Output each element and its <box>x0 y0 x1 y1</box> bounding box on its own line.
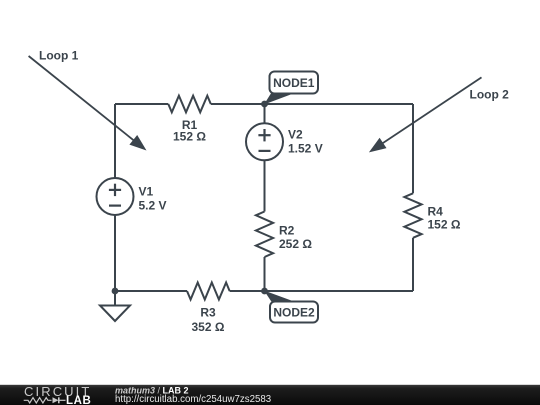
voltage source V2 <box>246 123 283 160</box>
wire middle mid segment <box>264 160 266 211</box>
node junction dot NODE2 <box>261 288 268 295</box>
svg-text:R2: R2 <box>279 224 295 238</box>
svg-text:152 Ω: 152 Ω <box>173 130 206 144</box>
loop 1 arrow <box>29 56 147 151</box>
wire middle lower segment <box>264 257 266 291</box>
svg-text:LAB: LAB <box>66 395 91 405</box>
svg-text:152 Ω: 152 Ω <box>428 218 461 232</box>
wire middle upper segment <box>264 104 266 124</box>
svg-text:NODE2: NODE2 <box>273 306 315 320</box>
wire bottom-left segment <box>115 290 187 292</box>
wire right upper segment <box>412 104 414 193</box>
ground <box>100 291 130 321</box>
NODE2 callout <box>264 291 318 323</box>
svg-text:Loop 1: Loop 1 <box>39 49 79 63</box>
svg-text:5.2 V: 5.2 V <box>139 199 167 213</box>
svg-text:252 Ω: 252 Ω <box>279 237 312 251</box>
resistor R4 <box>404 193 421 238</box>
loop 2 arrow <box>369 77 482 152</box>
svg-text:NODE1: NODE1 <box>273 76 315 90</box>
svg-text:R4: R4 <box>428 205 444 219</box>
wire top-right segment <box>211 103 413 105</box>
resistor R1 <box>168 96 211 113</box>
svg-text:V1: V1 <box>139 185 154 199</box>
svg-text:Loop 2: Loop 2 <box>470 88 510 102</box>
logo diode glyph <box>53 397 66 403</box>
svg-text:R3: R3 <box>200 306 216 320</box>
wire left upper segment <box>114 104 116 178</box>
resistor R2 <box>256 212 273 258</box>
wire left lower segment <box>114 215 116 291</box>
wire top-left segment <box>115 103 168 105</box>
svg-text:1.52 V: 1.52 V <box>288 142 323 156</box>
logo resistor glyph <box>24 398 52 403</box>
resistor R3 <box>187 283 230 300</box>
wire bottom-right segment <box>230 290 413 292</box>
node junction dot ground <box>112 288 119 295</box>
svg-text:V2: V2 <box>288 128 303 142</box>
NODE1 callout <box>264 72 318 105</box>
svg-text:352 Ω: 352 Ω <box>192 320 225 334</box>
node junction dot NODE1 <box>261 101 268 108</box>
voltage source V1 <box>97 178 134 215</box>
svg-text:http://circuitlab.com/c254uw7z: http://circuitlab.com/c254uw7zs2583 <box>115 394 271 405</box>
wire right lower segment <box>412 238 414 291</box>
